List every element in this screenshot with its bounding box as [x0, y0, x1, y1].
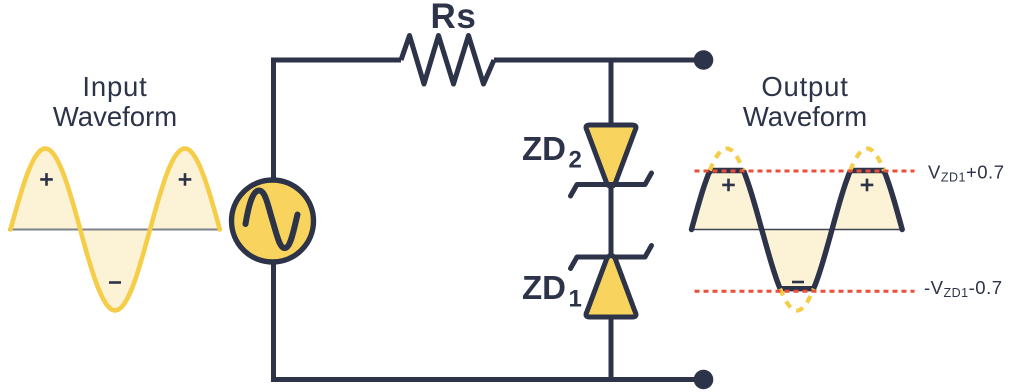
svg-text:Output: Output [761, 71, 848, 102]
svg-text:2: 2 [569, 147, 582, 174]
node dot bottom [694, 370, 714, 390]
output minus sign [792, 281, 804, 284]
output clipped waveform stroke [692, 171, 903, 289]
zener diode ZD1 cathode bar [571, 246, 652, 269]
input minus sign [109, 281, 121, 284]
zener diode ZD2 cathode bar [571, 173, 652, 196]
clip level line bottom [695, 290, 915, 293]
svg-text:ZD: ZD [522, 269, 566, 306]
AC source V1 circle [232, 180, 314, 262]
wire: source top to resistor to node [274, 60, 402, 183]
dashed sine arc trough [780, 289, 814, 311]
output waveform fill [692, 171, 903, 289]
svg-text:-VZD1-0.7: -VZD1-0.7 [924, 277, 1003, 300]
input waveform sine stroke [11, 149, 220, 311]
zener diode ZD2 triangle [586, 125, 636, 187]
output plus sign 1 [722, 179, 735, 192]
resistor Rs zigzag [401, 36, 494, 85]
zener diode ZD1 triangle [586, 256, 636, 318]
AC source sine symbol [246, 191, 298, 249]
output plus sign 2 [861, 179, 874, 192]
svg-text:1: 1 [569, 286, 582, 313]
output waveform baseline [692, 229, 903, 231]
input waveform sine fill [11, 149, 220, 311]
dashed sine arc peak 2 [850, 149, 884, 171]
svg-text:ZD: ZD [522, 130, 566, 167]
wire: zener branch vertical [609, 60, 614, 380]
dashed sine arc peak 1 [710, 149, 744, 171]
svg-text:Waveform: Waveform [53, 101, 177, 132]
input plus sign 2 [179, 173, 192, 186]
svg-text:Rs: Rs [431, 0, 477, 36]
svg-text:VZD1+0.7: VZD1+0.7 [928, 162, 1005, 185]
input waveform baseline [8, 229, 221, 231]
svg-text:Waveform: Waveform [743, 101, 867, 132]
clip level line top [695, 170, 915, 173]
wire: resistor to top node [494, 58, 700, 63]
node dot top [694, 50, 714, 70]
input plus sign 1 [40, 173, 53, 186]
wire: bottom return [274, 259, 701, 380]
svg-text:Input: Input [82, 71, 147, 102]
